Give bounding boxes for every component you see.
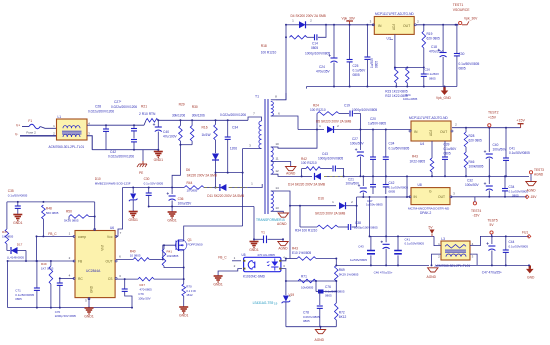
wire vert to D4 row — [285, 24, 296, 26]
label R46 — [469, 160, 484, 169]
wire D16 row — [297, 205, 336, 207]
label C18 — [429, 45, 444, 54]
svg-text:-15V: -15V — [530, 195, 538, 199]
svg-text:V+: V+ — [16, 123, 20, 127]
label D4 — [291, 14, 326, 18]
svg-text:0805: 0805 — [311, 46, 318, 50]
mosfet Q1 FDPF2N50 — [175, 240, 186, 252]
svg-text:100u/50V: 100u/50V — [346, 182, 361, 186]
capacitor C34 — [225, 119, 231, 173]
svg-text:0805: 0805 — [459, 67, 466, 71]
svg-text:FDPF2N50: FDPF2N50 — [188, 243, 203, 247]
svg-text:10: 10 — [275, 142, 279, 146]
resistor R30 — [180, 119, 194, 144]
svg-text:0.022u/200V/1206: 0.022u/200V/1206 — [111, 105, 137, 109]
label C23 rotated — [370, 57, 379, 68]
zener D10 — [129, 188, 138, 212]
svg-text:C18: C18 — [431, 45, 437, 49]
capacitor C42 — [131, 140, 137, 151]
wire FB left drop — [7, 260, 27, 308]
svg-text:10 0805: 10 0805 — [130, 254, 141, 258]
wire U3 out — [416, 20, 457, 26]
label U3 — [375, 12, 414, 41]
svg-text:D4 SK200 200V 2A SMB: D4 SK200 200V 2A SMB — [291, 14, 326, 18]
svg-text:AGND: AGND — [315, 338, 325, 342]
svg-text:C38: C38 — [355, 221, 361, 225]
label C79 — [138, 292, 150, 300]
svg-text:0.1u/50V: 0.1u/50V — [427, 72, 439, 76]
svg-text:1M/0805: 1M/0805 — [2, 235, 14, 239]
svg-text:Vpk_30V: Vpk_30V — [464, 17, 478, 21]
svg-text:C24: C24 — [319, 65, 325, 69]
svg-text:C47 470u/25+: C47 470u/25+ — [482, 271, 502, 275]
svg-text:1000p/100V/0805: 1000p/100V/0805 — [354, 226, 378, 230]
regulator U3 — [372, 17, 416, 35]
label C43 — [318, 152, 343, 161]
capacitor C40 electrolytic — [153, 119, 162, 149]
svg-text:0.1u 50V 0805: 0.1u 50V 0805 — [144, 182, 164, 186]
capacitor C39 — [442, 141, 448, 177]
svg-text:C40: C40 — [493, 143, 499, 147]
svg-text:MCP1117LPET-ADJTG-ND: MCP1117LPET-ADJTG-ND — [409, 116, 448, 120]
svg-text:C76: C76 — [325, 285, 331, 289]
svg-text:1812: 1812 — [186, 293, 193, 297]
svg-text:C26: C26 — [425, 68, 431, 72]
label C21 — [346, 178, 361, 186]
wire V- to choke — [20, 135, 57, 137]
label D11 — [187, 181, 245, 198]
svg-text:560 0805: 560 0805 — [46, 211, 59, 215]
ground GND1 pin5 — [84, 308, 94, 318]
svg-text:D11 SK220 200V 2A SMB: D11 SK220 200V 2A SMB — [207, 194, 244, 198]
label R42 — [301, 157, 317, 165]
svg-text:0.1u/50V: 0.1u/50V — [353, 69, 367, 73]
resistor R48 — [42, 205, 46, 237]
svg-text:100u/50V: 100u/50V — [465, 183, 480, 187]
svg-text:0805: 0805 — [325, 294, 332, 298]
label C42 — [108, 150, 134, 159]
svg-text:C32: C32 — [467, 179, 473, 183]
diode D6 — [212, 140, 219, 189]
label C41b — [405, 238, 425, 246]
svg-text:FB_C: FB_C — [48, 232, 57, 236]
svg-text:1u/50v-0805: 1u/50v-0805 — [366, 203, 383, 207]
svg-text:0.1u/50V/0805: 0.1u/50V/0805 — [509, 151, 530, 155]
svg-text:470u/25V: 470u/25V — [429, 50, 444, 54]
test point TEST1 — [453, 3, 471, 25]
svg-text:GND: GND — [90, 285, 94, 293]
svg-text:MCP1117LPET-ADJTG-ND: MCP1117LPET-ADJTG-ND — [375, 12, 414, 16]
label R22 R23 — [385, 90, 417, 102]
svg-text:1k/1W: 1k/1W — [202, 133, 211, 137]
svg-text:2200p 50V 0805: 2200p 50V 0805 — [55, 314, 77, 318]
capacitor C71 — [34, 260, 40, 309]
svg-text:R21: R21 — [141, 105, 147, 109]
wire +5V rail — [370, 235, 435, 237]
svg-text:0.1u/50V/0805: 0.1u/50V/0805 — [405, 241, 425, 245]
wire pin8 riser — [285, 25, 287, 100]
diode D5 — [298, 124, 411, 133]
svg-text:C42: C42 — [389, 181, 395, 185]
svg-text:AGND: AGND — [427, 275, 437, 279]
label C36 — [178, 197, 193, 206]
ground GND1 d10 — [128, 212, 138, 222]
capacitor C25 — [347, 25, 353, 88]
svg-text:V-: V- — [15, 133, 18, 137]
svg-text:+15V: +15V — [488, 115, 497, 119]
wire vcc down — [118, 188, 123, 235]
test point TEST4 — [471, 197, 481, 218]
svg-text:AGND: AGND — [278, 246, 288, 250]
resistor R47b 1M — [5, 229, 9, 244]
label C25 — [353, 64, 367, 77]
resistor R47cs — [138, 277, 154, 281]
svg-text:100p 50V: 100p 50V — [138, 296, 150, 300]
capacitor C26 — [421, 68, 427, 88]
pin 13 wire — [271, 206, 284, 213]
label C78 — [303, 311, 320, 323]
svg-text:470u/35V: 470u/35V — [316, 70, 331, 74]
label R24 — [310, 104, 326, 113]
label U5 — [242, 253, 266, 279]
capacitor C42b — [370, 176, 376, 194]
svg-text:C20: C20 — [370, 117, 376, 121]
label U4 — [409, 116, 448, 146]
wire R43 to R69 — [316, 258, 337, 266]
transformer primary winding — [259, 121, 262, 148]
svg-text:C46 470u/25+: C46 470u/25+ — [374, 271, 393, 275]
wire primary bottom rail — [92, 149, 158, 151]
pin 12 wire — [271, 169, 302, 176]
svg-text:C35: C35 — [8, 189, 14, 193]
svg-text:D14 SK220 200V 2A SMB: D14 SK220 200V 2A SMB — [288, 182, 325, 186]
diode D4 — [292, 19, 334, 29]
svg-text:PE: PE — [139, 171, 143, 175]
svg-text:C43: C43 — [358, 245, 364, 249]
capacitor C27 — [131, 124, 137, 138]
diode D11 — [204, 184, 247, 191]
svg-text:-15V: -15V — [473, 214, 481, 218]
svg-text:SK220 200V 2A SMB: SK220 200V 2A SMB — [315, 212, 345, 216]
svg-text:comp: comp — [78, 235, 86, 239]
svg-text:C43: C43 — [322, 152, 328, 156]
ground GND1 opto — [213, 276, 223, 286]
svg-text:C14: C14 — [312, 42, 318, 46]
wire FB — [26, 256, 74, 262]
svg-text:F1: F1 — [28, 119, 32, 123]
svg-text:TEST5: TEST5 — [488, 219, 498, 223]
svg-text:R16: R16 — [202, 126, 208, 130]
wire opto pin4 — [282, 256, 291, 261]
svg-text:LL4148-0805: LL4148-0805 — [7, 255, 24, 259]
test point TEST2 — [488, 111, 499, 127]
power flag Vpk30 right — [462, 17, 478, 25]
label C32e — [465, 179, 480, 188]
inductor L3 choke — [438, 241, 474, 260]
wire top left rail — [7, 201, 95, 229]
svg-text:R46: R46 — [469, 160, 475, 164]
label C71 — [15, 289, 34, 301]
wire OUT to gate — [149, 245, 176, 260]
svg-text:SK220 200V 2A SMB: SK220 200V 2A SMB — [187, 173, 217, 177]
svg-text:CS: CS — [108, 277, 113, 281]
ground AGND L3 — [427, 268, 439, 279]
ground AGND tl431 — [315, 326, 326, 342]
wire AC bottom to rail — [87, 136, 92, 150]
resistor R69 — [335, 264, 339, 281]
capacitor C48 — [394, 236, 402, 266]
wire drain vertical — [242, 149, 244, 227]
wire comp — [36, 232, 75, 262]
wire gnd1 rail — [149, 207, 254, 240]
wire gnd rail top section — [307, 87, 457, 89]
ground AGND pin11 — [286, 167, 296, 176]
ground GND1 c35 — [13, 215, 23, 225]
ground AGND y1 — [278, 238, 288, 250]
transformer secondary winding 1 — [271, 102, 274, 116]
svg-text:0.1u/50V/0805: 0.1u/50V/0805 — [509, 245, 529, 249]
svg-text:U5: U5 — [242, 253, 246, 257]
svg-text:C39: C39 — [444, 143, 450, 147]
svg-text:AGND: AGND — [286, 171, 296, 175]
regulator U4 — [409, 121, 453, 141]
capacitor C76 — [316, 281, 336, 294]
snubber R34 C38 — [299, 205, 357, 230]
capacitor C24 electrolytic — [329, 25, 338, 88]
label R16 — [202, 126, 211, 138]
label L3 — [435, 237, 471, 268]
diode D16 — [332, 196, 407, 227]
svg-text:C27*: C27* — [114, 100, 122, 104]
svg-text:U4: U4 — [420, 142, 424, 146]
resistor R72 — [335, 291, 339, 327]
svg-text:C28: C28 — [95, 105, 101, 109]
svg-text:L1: L1 — [58, 115, 62, 119]
svg-text:13: 13 — [275, 206, 279, 210]
svg-text:K1010NC-SMD: K1010NC-SMD — [243, 275, 266, 279]
svg-text:D17: D17 — [17, 243, 23, 247]
svg-text:ADJ: ADJ — [392, 24, 396, 30]
capacitor C78 — [317, 291, 323, 327]
svg-text:12: 12 — [275, 169, 279, 173]
svg-text:Y1: Y1 — [261, 231, 265, 235]
capacitor C43b — [367, 236, 375, 266]
label C26 — [425, 68, 440, 81]
svg-text:R19: R19 — [427, 32, 433, 36]
label R43 — [292, 247, 311, 255]
svg-text:0805: 0805 — [375, 61, 379, 68]
capacitor C35 — [15, 202, 21, 215]
label D5 — [316, 120, 351, 124]
svg-text:1u/50V-0805: 1u/50V-0805 — [368, 122, 386, 126]
svg-text:Vref: Vref — [101, 245, 105, 251]
wire U4 out — [452, 123, 521, 129]
svg-text:100k/0805: 100k/0805 — [469, 165, 484, 169]
svg-text:0805: 0805 — [15, 297, 22, 301]
label C76 — [325, 285, 345, 298]
label D16 — [315, 197, 383, 216]
svg-text:100 R1210: 100 R1210 — [310, 108, 326, 112]
power flag 5V — [429, 226, 435, 237]
transformer secondary winding 3 — [271, 191, 274, 211]
svg-text:C36: C36 — [178, 197, 184, 201]
label D14 — [288, 182, 325, 186]
svg-text:C40: C40 — [163, 130, 169, 134]
regulator U8 negative — [409, 188, 452, 205]
svg-text:E10 1%/0805: E10 1%/0805 — [292, 251, 311, 255]
test point TEST3 — [529, 168, 544, 176]
label C30 — [144, 177, 164, 186]
node -15V — [525, 195, 537, 199]
capacitor C36 electrolytic — [167, 188, 176, 208]
label L1 — [49, 115, 85, 149]
label C20 — [368, 117, 386, 126]
label R21 — [139, 105, 156, 117]
capacitor C34e — [502, 175, 508, 196]
svg-text:L3: L3 — [441, 237, 445, 241]
capacitor C45e electrolytic — [486, 236, 495, 266]
svg-text:GND1: GND1 — [179, 313, 189, 317]
svg-text:RC: RC — [78, 277, 83, 281]
wire ADJ U3 — [394, 34, 396, 67]
capacitor C30a — [454, 24, 460, 87]
wire CS row — [116, 274, 138, 280]
label C38 — [354, 221, 378, 230]
svg-text:0.1u/50V/0805: 0.1u/50V/0805 — [389, 147, 410, 151]
svg-text:0.022u/200V/1206: 0.022u/200V/1206 — [108, 155, 134, 159]
svg-text:GND1: GND1 — [84, 314, 94, 318]
label R43m — [410, 155, 426, 164]
resistor R43 — [297, 257, 316, 261]
svg-text:GND: GND — [527, 275, 535, 279]
svg-text:AGND: AGND — [534, 172, 544, 176]
diode D17 — [7, 244, 26, 261]
label R40 — [130, 250, 141, 258]
label C27m — [350, 137, 365, 146]
label C19 — [344, 104, 377, 113]
svg-text:TEST4: TEST4 — [471, 209, 481, 213]
svg-text:R43: R43 — [412, 155, 418, 159]
svg-text:Fuse 2: Fuse 2 — [26, 131, 36, 135]
svg-text:ACM7060-301-2PL-TL01: ACM7060-301-2PL-TL01 — [49, 145, 85, 149]
label C39 — [444, 143, 458, 156]
svg-text:100 R1210: 100 R1210 — [261, 50, 277, 54]
svg-text:R30: R30 — [192, 105, 198, 109]
svg-text:14: 14 — [275, 186, 279, 190]
svg-text:TEST1: TEST1 — [453, 3, 464, 7]
wire U4 in — [410, 130, 412, 132]
ground GND1 r70 — [179, 296, 189, 317]
svg-text:GND1: GND1 — [154, 158, 164, 162]
capacitor C23 — [364, 25, 370, 88]
snubber R24 C19 — [317, 111, 360, 130]
label R72 — [339, 311, 347, 319]
svg-text:IN: IN — [378, 24, 382, 28]
svg-text:GND1: GND1 — [249, 248, 259, 252]
capacitor C21 electrolytic — [358, 175, 367, 197]
svg-text:C30: C30 — [459, 52, 465, 56]
resistor R29 — [172, 119, 182, 187]
capacitor C20 — [370, 130, 376, 177]
wire L3 out bottom — [470, 254, 477, 265]
svg-text:OUT: OUT — [106, 260, 113, 264]
svg-text:10k/0805: 10k/0805 — [301, 286, 314, 290]
svg-text:R48: R48 — [46, 207, 52, 211]
svg-text:TEST2: TEST2 — [488, 111, 499, 115]
svg-text:C30: C30 — [144, 177, 150, 181]
capacitor C32e electrolytic — [484, 175, 493, 196]
svg-text:R34 100 R1210: R34 100 R1210 — [295, 229, 318, 233]
label R19 — [427, 32, 441, 41]
resistor R71 — [298, 279, 316, 283]
pin 3 primary bottom — [243, 144, 262, 149]
wire vcc pin stub — [116, 231, 122, 236]
label C46 — [374, 271, 393, 275]
svg-text:U3: U3 — [387, 37, 391, 41]
svg-text:100 R1210: 100 R1210 — [301, 161, 317, 165]
node V- input — [15, 131, 36, 137]
svg-text:100u/25V: 100u/25V — [178, 202, 193, 206]
snubber R18 C14 across D4 — [285, 24, 327, 41]
label C30a — [459, 52, 480, 71]
svg-text:U8: U8 — [418, 183, 422, 187]
svg-text:0.022u/200V/1206: 0.022u/200V/1206 — [88, 110, 114, 114]
svg-text:R69: R69 — [339, 268, 345, 272]
svg-text:Vpk_30V: Vpk_30V — [342, 16, 356, 20]
inductor L1 common-mode choke — [53, 119, 90, 140]
node V+ input — [16, 119, 32, 127]
svg-text:GND1: GND1 — [167, 218, 177, 222]
svg-text:1K22-0805: 1K22-0805 — [410, 160, 426, 164]
label D17 — [7, 243, 24, 260]
resistor R43m — [430, 158, 434, 177]
svg-text:0.1u/50V: 0.1u/50V — [444, 147, 458, 151]
resistor R19 — [422, 25, 426, 68]
svg-text:10 0805: 10 0805 — [187, 189, 198, 193]
svg-text:100u-0805: 100u-0805 — [403, 97, 418, 101]
wire RC — [59, 274, 74, 280]
label V19 — [253, 293, 295, 306]
wire L3 in bottom — [431, 254, 442, 266]
label C27 — [111, 100, 137, 109]
capacitor C70 — [57, 278, 63, 308]
svg-text:ACM7060-301-2PL-TL01: ACM7060-301-2PL-TL01 — [435, 264, 471, 268]
svg-text:1u/50V: 1u/50V — [370, 57, 374, 68]
svg-text:9K29 1%/0805: 9K29 1%/0805 — [339, 273, 359, 277]
wire D6 to drain node — [215, 172, 244, 174]
label R30 — [192, 105, 205, 118]
svg-text:10k/0805: 10k/0805 — [167, 254, 179, 258]
svg-text:0805: 0805 — [353, 73, 360, 77]
svg-text:IN: IN — [414, 130, 418, 134]
label C40m — [493, 143, 508, 152]
label R41 — [167, 250, 179, 258]
svg-text:2 R10 RTN: 2 R10 RTN — [139, 112, 156, 116]
capacitor C42c — [383, 176, 389, 194]
svg-text:470-0805: 470-0805 — [140, 287, 153, 291]
capacitor C30 — [146, 188, 152, 208]
transformer T1 core — [255, 95, 269, 215]
label C24 — [316, 65, 331, 74]
svg-text:0805: 0805 — [444, 152, 451, 156]
label R50 — [64, 210, 79, 223]
wire L3 in top — [434, 236, 441, 245]
svg-text:GND1: GND1 — [128, 218, 138, 222]
svg-text:D5 SK220 200V 2A SMB: D5 SK220 200V 2A SMB — [316, 120, 351, 124]
svg-text:FB_C: FB_C — [218, 255, 227, 259]
svg-text:0.1u/50V/0805: 0.1u/50V/0805 — [459, 62, 480, 66]
label C35 — [8, 189, 28, 198]
